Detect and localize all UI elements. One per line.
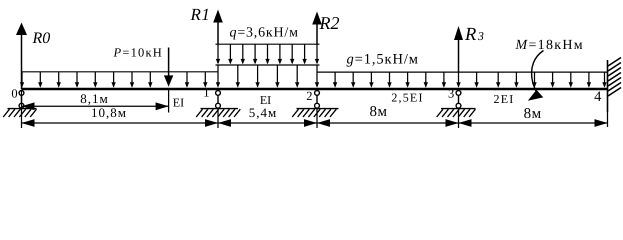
load g arrow a0 xyxy=(21,72,23,87)
dimension line 8,1m xyxy=(22,105,169,107)
extension line node 1 xyxy=(217,109,219,128)
reaction arrow R3 xyxy=(458,40,460,72)
dim arrow right 8,1m xyxy=(156,102,169,110)
svg-text:R3: R3 xyxy=(464,25,484,45)
force P arrow xyxy=(168,48,170,77)
load g arrow c2 xyxy=(370,72,372,86)
load g arrow c1 xyxy=(352,72,354,86)
load g arrow at node 2 xyxy=(316,65,318,86)
support 2: ground hatching xyxy=(292,109,336,117)
svg-text:4: 4 xyxy=(594,89,602,105)
load g arrow c4 xyxy=(407,72,409,86)
svg-text:M=18кНм: M=18кНм xyxy=(515,38,584,53)
reaction arrow R1 xyxy=(217,23,219,45)
wire: q band bottom line, span 1-2 xyxy=(216,64,320,66)
extension line node 4 xyxy=(607,112,609,127)
svg-text:g=1,5кН/м: g=1,5кН/м xyxy=(347,52,419,68)
svg-text:P=10кН: P=10кН xyxy=(113,46,164,60)
dim arrow left 8,1m xyxy=(22,102,35,110)
load g arrow c8 xyxy=(476,72,478,86)
support 3: strut xyxy=(458,95,460,103)
load q arrow 6 xyxy=(291,44,293,63)
load g arrow a3 xyxy=(76,72,78,87)
support 0: lower hinge circle xyxy=(19,103,24,108)
reaction arrow R2 xyxy=(316,25,318,45)
svg-text:1: 1 xyxy=(203,86,209,100)
support 1: lower hinge circle xyxy=(216,103,221,108)
load g arrow c15 xyxy=(604,72,606,86)
support 3: ground hatching xyxy=(437,109,476,117)
dim arrow pair node 1 left xyxy=(205,119,218,127)
support 2: lower hinge circle xyxy=(315,103,320,108)
load q arrow 0 xyxy=(217,44,219,63)
dim arrow pair node 1 right xyxy=(218,119,231,127)
load q arrow 5 xyxy=(279,44,281,63)
load g arrow c14 xyxy=(588,72,590,86)
svg-text:10,8м: 10,8м xyxy=(91,105,127,120)
load g arrow at node 1 xyxy=(217,65,219,86)
load g arrow b2 xyxy=(276,65,278,86)
dim arrow left 10,8m xyxy=(22,119,35,127)
load g arrow c11 xyxy=(534,72,536,86)
load g arrow a5 xyxy=(113,72,115,87)
load g arrow a8 xyxy=(186,72,188,87)
support 1: ground hatching xyxy=(196,109,240,117)
dim arrow pair node 2 left xyxy=(304,119,317,127)
svg-text:2,5EI: 2,5EI xyxy=(391,91,423,105)
load q arrow 2 xyxy=(242,44,244,63)
support 1: ground line xyxy=(201,108,239,110)
load q arrow 8 xyxy=(316,44,318,63)
support 0: upper hinge circle xyxy=(19,91,24,96)
load g arrow c6 xyxy=(443,72,445,86)
extension line node 2 xyxy=(316,109,318,128)
support 1: upper hinge circle xyxy=(216,91,221,96)
svg-text:5,4м: 5,4м xyxy=(249,105,277,120)
support 2: upper hinge circle xyxy=(315,91,320,96)
svg-text:EI: EI xyxy=(260,93,271,107)
load g arrow c0 xyxy=(334,72,336,86)
fixed support wall at node 4 xyxy=(607,60,609,112)
reaction arrow R0 xyxy=(21,35,23,89)
force P dimension extension line below beam xyxy=(168,90,170,113)
load q arrow 7 xyxy=(304,44,306,63)
support 3: upper hinge circle xyxy=(456,91,461,96)
svg-text:q=3,6кН/м: q=3,6кН/м xyxy=(230,25,299,40)
support 0: ground line xyxy=(8,108,37,110)
load g arrow c13 xyxy=(570,72,572,86)
dim arrow pair node 2 right xyxy=(317,119,330,127)
load g arrow a2 xyxy=(58,72,60,87)
extension line node 3 xyxy=(458,109,460,128)
load g arrow c3 xyxy=(389,72,391,86)
load g arrow a1 xyxy=(39,72,41,87)
load q arrow 1 xyxy=(229,44,231,63)
load g arrow a9 xyxy=(204,72,206,87)
dim arrow pair node 3 left xyxy=(446,119,459,127)
svg-text:R2: R2 xyxy=(319,13,340,33)
dim arrow pair node 3 right xyxy=(459,119,472,127)
load g arrow b3 xyxy=(296,65,298,86)
load g arrow a6 xyxy=(131,72,133,87)
svg-text:8,1м: 8,1м xyxy=(80,91,108,106)
support 2: ground line xyxy=(297,108,339,110)
wire: distributed load g top line, span 0-1 xyxy=(22,71,219,73)
extension line node 0 xyxy=(21,90,23,128)
svg-text:2EI: 2EI xyxy=(494,92,515,106)
load g arrow c10 xyxy=(515,72,517,86)
load g arrow c9 xyxy=(497,72,499,86)
support 3: ground line xyxy=(441,108,476,110)
support 2: strut xyxy=(316,95,318,103)
svg-text:EI: EI xyxy=(173,95,184,109)
svg-text:3: 3 xyxy=(448,86,454,100)
load g arrow c12 xyxy=(552,72,554,86)
svg-text:R1: R1 xyxy=(190,5,211,24)
moment M curved arrow xyxy=(532,51,544,92)
svg-text:0: 0 xyxy=(11,87,17,101)
wall hatching xyxy=(608,58,621,97)
support 1: strut xyxy=(217,95,219,103)
beam 0-4 xyxy=(22,88,608,91)
load g arrow a4 xyxy=(94,72,96,87)
svg-text:R0: R0 xyxy=(32,30,51,47)
support 0: ground hatching xyxy=(3,109,36,117)
support 0: strut xyxy=(21,95,23,103)
svg-text:8м: 8м xyxy=(524,106,542,122)
dimension line bottom row xyxy=(22,122,608,124)
wire: q band top line, span 1-2 xyxy=(216,43,320,45)
svg-text:8м: 8м xyxy=(370,104,388,120)
dim arrow right end xyxy=(595,119,608,127)
load q arrow 4 xyxy=(267,44,269,63)
load q arrow 3 xyxy=(254,44,256,63)
support 3: lower hinge circle xyxy=(456,103,461,108)
svg-text:2: 2 xyxy=(306,89,312,103)
load g arrow b0 xyxy=(237,65,239,86)
wire: distributed load g top line, span 2-4 xyxy=(317,71,608,73)
load g arrow b1 xyxy=(257,65,259,86)
load g arrow c5 xyxy=(425,72,427,86)
load g arrow a7 xyxy=(149,72,151,87)
load g arrow c7 xyxy=(458,72,460,86)
